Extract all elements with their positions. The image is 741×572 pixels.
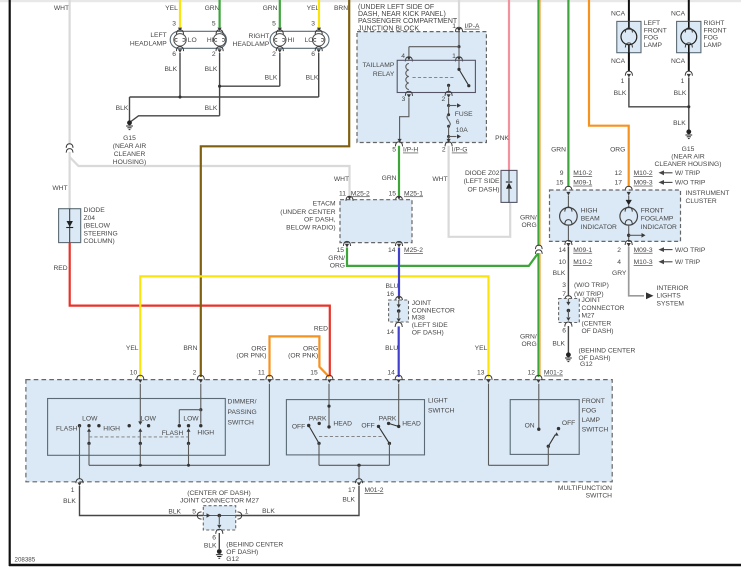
svg-text:SWITCH: SWITCH [586,492,613,499]
svg-text:(NEAR AIR: (NEAR AIR [671,154,705,161]
svg-text:SWITCH: SWITCH [428,408,455,415]
svg-text:11: 11 [339,190,346,197]
svg-text:M27: M27 [582,313,595,320]
svg-text:HI: HI [207,37,214,44]
svg-text:CLEANER HOUSING): CLEANER HOUSING) [655,161,722,168]
svg-text:BLK: BLK [168,508,181,515]
svg-text:2: 2 [617,247,621,254]
svg-text:INDICATOR: INDICATOR [581,224,617,231]
svg-text:HI: HI [288,37,295,44]
svg-text:INDICATOR: INDICATOR [641,224,677,231]
svg-text:17: 17 [348,487,356,494]
svg-text:HEADLAMP: HEADLAMP [233,41,270,48]
svg-text:STEERING: STEERING [84,230,118,237]
svg-text:M09-1: M09-1 [573,180,592,187]
svg-text:BRN: BRN [183,345,197,352]
svg-text:OFF: OFF [292,424,305,431]
svg-text:SWITCH: SWITCH [582,427,609,434]
svg-text:11: 11 [258,369,265,376]
svg-text:3: 3 [402,96,406,103]
svg-text:Z04: Z04 [84,215,96,222]
svg-text:YEL: YEL [475,345,488,352]
svg-text:GRN/: GRN/ [520,334,537,341]
svg-text:10A: 10A [456,127,468,134]
svg-text:1: 1 [452,53,456,60]
svg-text:5: 5 [392,147,396,154]
svg-text:SYSTEM: SYSTEM [657,300,685,307]
svg-text:LAMP: LAMP [704,42,723,49]
svg-text:15: 15 [337,247,345,254]
svg-text:HEADLAMP: HEADLAMP [130,40,167,47]
svg-text:GRN: GRN [205,5,220,12]
svg-text:I/P-G: I/P-G [452,147,468,154]
svg-text:FRONT: FRONT [644,27,667,34]
svg-text:M01-2: M01-2 [544,370,563,377]
svg-text:GRN: GRN [382,175,397,182]
svg-text:M25-1: M25-1 [404,190,423,197]
svg-text:BEAM: BEAM [581,216,600,223]
svg-text:M01-2: M01-2 [365,487,384,494]
svg-text:DASH, NEAR KICK PANEL): DASH, NEAR KICK PANEL) [358,11,446,18]
svg-text:5: 5 [272,20,276,27]
svg-text:15: 15 [310,369,318,376]
svg-text:LEFT: LEFT [150,32,166,39]
svg-text:OFF: OFF [562,420,575,427]
svg-text:LIGHTS: LIGHTS [657,293,682,300]
svg-text:1: 1 [245,508,249,515]
svg-text:RELAY: RELAY [373,71,395,78]
svg-text:10: 10 [130,369,138,376]
svg-text:DIMMER/: DIMMER/ [228,399,257,406]
svg-text:13: 13 [477,369,485,376]
svg-text:YEL: YEL [165,5,178,12]
svg-text:GRY: GRY [612,270,627,277]
svg-text:ON: ON [525,422,535,429]
svg-text:6: 6 [562,328,566,335]
svg-text:4: 4 [401,53,405,60]
svg-text:LOW: LOW [141,416,157,423]
svg-text:9: 9 [560,170,564,177]
svg-text:NCA: NCA [671,58,686,65]
svg-text:14: 14 [387,329,395,336]
svg-text:(OR PNK): (OR PNK) [236,352,266,359]
svg-text:(W/O TRIP): (W/O TRIP) [574,282,609,289]
svg-text:DIODE Z02: DIODE Z02 [465,170,500,177]
svg-text:JOINT: JOINT [582,297,601,304]
svg-text:1: 1 [71,487,75,494]
svg-text:BLK: BLK [205,66,218,73]
svg-text:HIGH: HIGH [581,208,598,215]
svg-text:HOUSING): HOUSING) [113,159,146,166]
svg-text:2: 2 [441,96,445,103]
svg-text:WHT: WHT [54,5,69,12]
svg-text:6: 6 [311,51,315,58]
svg-text:LAMP: LAMP [582,417,601,424]
svg-text:6: 6 [212,535,216,542]
svg-text:PASSING: PASSING [228,409,257,416]
svg-text:WHT: WHT [334,176,349,183]
svg-text:LIGHT: LIGHT [428,397,448,404]
svg-text:ORG: ORG [521,222,536,229]
svg-text:WHT: WHT [432,176,447,183]
svg-text:HEAD: HEAD [333,420,352,427]
svg-text:BELOW RADIO): BELOW RADIO) [286,225,335,232]
svg-text:TAILLAMP: TAILLAMP [362,62,394,69]
svg-text:GRN/: GRN/ [520,215,537,222]
svg-text:G15: G15 [123,135,136,142]
svg-text:INSTRUMENT: INSTRUMENT [686,190,730,197]
svg-text:LO: LO [188,37,197,44]
svg-text:(UNDER CENTER: (UNDER CENTER [280,209,336,216]
svg-text:COLUMN): COLUMN) [84,238,115,245]
svg-text:M09-3: M09-3 [634,247,653,254]
svg-text:CONNECTOR: CONNECTOR [412,307,455,314]
svg-text:6: 6 [172,51,176,58]
svg-text:16: 16 [387,291,395,298]
svg-text:2: 2 [442,147,446,154]
svg-text:MULTIFUNCTION: MULTIFUNCTION [558,485,612,492]
svg-text:FOGLAMP: FOGLAMP [641,216,674,223]
svg-text:17: 17 [615,180,623,187]
svg-text:M10-2: M10-2 [573,170,592,177]
svg-text:PARK: PARK [309,415,327,422]
svg-text:3: 3 [311,20,315,27]
svg-text:10: 10 [559,259,567,266]
svg-text:DIODE: DIODE [84,207,106,214]
svg-text:NCA: NCA [611,11,626,18]
svg-text:LOW: LOW [82,416,98,423]
svg-text:BLK: BLK [552,341,565,348]
svg-text:2: 2 [193,369,197,376]
svg-text:FOG: FOG [644,35,659,42]
svg-text:3: 3 [562,282,566,289]
svg-text:LO: LO [305,37,314,44]
svg-text:(OR PNK): (OR PNK) [288,352,318,359]
svg-text:FLASH: FLASH [56,425,78,432]
svg-text:OF DASH,: OF DASH, [304,217,336,224]
svg-text:BLK: BLK [164,66,177,73]
svg-text:6: 6 [456,119,460,126]
svg-text:4: 4 [617,259,621,266]
svg-text:BLK: BLK [674,90,687,97]
svg-text:1: 1 [621,78,625,85]
svg-text:CLUSTER: CLUSTER [686,198,717,205]
svg-text:M25-2: M25-2 [351,190,370,197]
svg-text:15: 15 [556,180,564,187]
svg-text:G15: G15 [682,146,695,153]
svg-text:BLK: BLK [205,105,218,112]
svg-text:RED: RED [314,325,328,332]
svg-text:2: 2 [272,51,276,58]
svg-text:HIGH: HIGH [197,430,214,437]
svg-text:LOW: LOW [183,416,199,423]
svg-text:LAMP: LAMP [644,42,663,49]
svg-text:FUSE: FUSE [455,111,473,118]
svg-text:BLK: BLK [63,498,76,505]
svg-text:BLK: BLK [265,75,278,82]
svg-text:FOG: FOG [582,408,597,415]
svg-text:(CENTER: (CENTER [582,320,612,327]
svg-text:1: 1 [681,78,685,85]
svg-text:M38: M38 [412,315,425,322]
svg-text:JOINT: JOINT [412,300,431,307]
svg-text:OF DASH): OF DASH) [582,328,614,335]
svg-text:OFF: OFF [361,422,374,429]
svg-text:BLU: BLU [385,283,398,290]
svg-text:W/ TRIP: W/ TRIP [675,170,701,177]
svg-text:FRONT: FRONT [704,27,727,34]
svg-text:FRONT: FRONT [641,208,664,215]
svg-text:PNK: PNK [495,135,509,142]
svg-text:12: 12 [528,370,536,377]
svg-text:3: 3 [172,20,176,27]
svg-text:YEL: YEL [307,5,320,12]
svg-text:RED: RED [53,265,67,272]
svg-text:(CENTER OF DASH): (CENTER OF DASH) [187,490,251,497]
svg-text:GRN/: GRN/ [328,255,345,262]
svg-text:JOINT CONNECTOR M27: JOINT CONNECTOR M27 [180,498,259,505]
svg-text:5: 5 [192,508,196,515]
svg-text:I/P-A: I/P-A [465,23,480,30]
svg-text:(NEAR AIR: (NEAR AIR [113,143,147,150]
svg-text:I/P-H: I/P-H [403,147,418,154]
svg-text:M10-2: M10-2 [634,170,653,177]
svg-text:ORG: ORG [251,345,266,352]
svg-text:BLK: BLK [342,496,355,503]
svg-text:2: 2 [212,51,216,58]
svg-text:OF DASH): OF DASH) [468,186,500,193]
svg-text:PARK: PARK [379,415,397,422]
svg-text:FLASH: FLASH [162,430,184,437]
svg-text:ORG: ORG [521,341,536,348]
svg-text:BLK: BLK [614,90,627,97]
svg-text:(LEFT SIDE: (LEFT SIDE [464,178,500,185]
svg-text:ORG: ORG [330,263,345,270]
svg-text:ORG: ORG [303,345,318,352]
svg-text:LEFT: LEFT [644,20,660,27]
svg-text:JUNCTION BLOCK: JUNCTION BLOCK [358,25,419,32]
svg-text:BLK: BLK [306,75,319,82]
svg-text:NCA: NCA [671,11,686,18]
svg-text:W/O TRIP: W/O TRIP [675,180,706,187]
svg-text:NCA: NCA [611,58,626,65]
svg-text:BLK: BLK [553,270,566,277]
svg-text:BLU: BLU [385,345,398,352]
svg-text:12: 12 [615,170,623,177]
svg-text:14: 14 [387,369,395,376]
svg-text:5: 5 [212,20,216,27]
svg-text:G12: G12 [226,556,239,563]
svg-text:WHT: WHT [52,185,67,192]
svg-text:M25-2: M25-2 [404,247,423,254]
svg-text:M09-1: M09-1 [573,247,592,254]
svg-text:HEAD: HEAD [402,420,421,427]
svg-text:14: 14 [559,247,567,254]
svg-text:YEL: YEL [126,345,139,352]
svg-text:15: 15 [389,190,397,197]
svg-text:BLK: BLK [204,543,217,550]
svg-text:(BEHIND CENTER: (BEHIND CENTER [579,347,636,354]
svg-text:BRN: BRN [334,5,348,12]
svg-text:(BELOW: (BELOW [84,223,111,230]
svg-text:CLEANER: CLEANER [114,151,146,158]
svg-text:INTERIOR: INTERIOR [657,285,689,292]
svg-text:GRN: GRN [263,5,278,12]
svg-text:W/ TRIP: W/ TRIP [675,259,701,266]
svg-text:ORG: ORG [610,146,625,153]
svg-text:208385: 208385 [15,557,36,564]
svg-text:ETACM: ETACM [313,200,336,207]
svg-text:1: 1 [452,23,456,30]
svg-text:(UNDER LEFT SIDE OF: (UNDER LEFT SIDE OF [358,4,434,11]
svg-text:FOG: FOG [704,35,719,42]
svg-text:RIGHT: RIGHT [248,33,269,40]
svg-text:(BEHIND CENTER: (BEHIND CENTER [226,542,283,549]
svg-text:RIGHT: RIGHT [704,20,725,27]
svg-text:OF DASH): OF DASH) [412,330,444,337]
svg-text:CONNECTOR: CONNECTOR [582,305,625,312]
svg-text:G12: G12 [580,361,593,368]
svg-text:(LEFT SIDE: (LEFT SIDE [412,322,448,329]
svg-text:M09-3: M09-3 [634,180,653,187]
svg-text:M10-2: M10-2 [573,259,592,266]
svg-text:14: 14 [388,247,396,254]
svg-text:BLK: BLK [116,105,129,112]
svg-text:SWITCH: SWITCH [228,419,255,426]
svg-text:BLK: BLK [262,508,275,515]
svg-text:W/O TRIP: W/O TRIP [675,247,706,254]
svg-text:BLK: BLK [673,120,686,127]
svg-text:M10-3: M10-3 [634,259,653,266]
svg-text:PASSENGER COMPARTMENT: PASSENGER COMPARTMENT [358,18,458,25]
svg-text:FRONT: FRONT [582,398,605,405]
svg-text:GRN: GRN [551,146,566,153]
svg-text:HIGH: HIGH [103,425,120,432]
